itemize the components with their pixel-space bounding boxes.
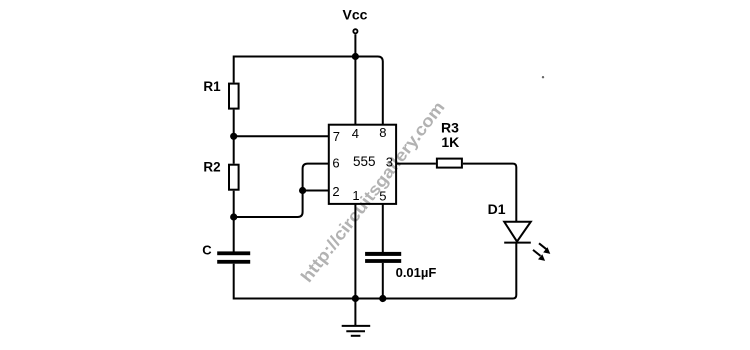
junction pin 1 / bottom rail bbox=[352, 295, 359, 302]
wire R1 bottom to R2 top bbox=[233, 110, 235, 164]
svg-text:Vcc: Vcc bbox=[343, 7, 368, 23]
LED D1 cathode bar bbox=[504, 242, 531, 244]
capacitor C2 top plate bbox=[365, 252, 401, 256]
svg-text:R2: R2 bbox=[203, 160, 220, 175]
svg-text:D1: D1 bbox=[488, 201, 506, 217]
node Vcc label bbox=[343, 7, 368, 23]
svg-text:5: 5 bbox=[379, 189, 386, 204]
555 label bbox=[353, 154, 376, 169]
value 1K bbox=[441, 134, 459, 150]
resistor R3 label bbox=[441, 119, 459, 135]
pin 2 bbox=[332, 184, 339, 199]
junction pin2/pin6 branch bbox=[299, 187, 306, 194]
resistor R1 bbox=[229, 84, 239, 109]
wire Vcc terminal down to pin 4 bbox=[354, 34, 356, 124]
capacitor C top plate bbox=[217, 251, 250, 255]
pin 7 bbox=[333, 129, 340, 144]
resistor R2 bbox=[229, 165, 239, 190]
svg-text:1: 1 bbox=[352, 188, 359, 203]
op-amp U1 555 body white fill bbox=[328, 124, 397, 205]
wire node to pin 7 bbox=[234, 135, 329, 137]
svg-text:8: 8 bbox=[379, 125, 386, 140]
wire LED cathode to bottom rail bbox=[234, 243, 517, 299]
wire pin 1 to ground bbox=[354, 204, 356, 326]
wire top rail down to R1 bbox=[233, 56, 235, 83]
Vcc terminal circle bbox=[353, 29, 357, 33]
capacitor C bottom plate bbox=[217, 260, 250, 264]
pin 5 bbox=[379, 189, 386, 204]
wire C bottom to bottom rail bbox=[233, 264, 235, 300]
watermark http://circuitsgallery.com bbox=[297, 98, 448, 286]
pin 1 bbox=[352, 188, 359, 203]
LED D1 emission arrow 2 bbox=[533, 250, 545, 261]
pin 6 bbox=[332, 156, 339, 171]
svg-text:R3: R3 bbox=[441, 119, 459, 135]
svg-text:555: 555 bbox=[353, 154, 376, 169]
pin 3 bbox=[386, 155, 393, 170]
wire R2/C node up to pin 6 bbox=[234, 164, 329, 217]
svg-text:1K: 1K bbox=[441, 134, 459, 150]
wire R2 bottom to capacitor C bbox=[233, 191, 235, 252]
value 0.01uF bbox=[396, 265, 437, 280]
speck artifact bbox=[542, 76, 544, 78]
ground bbox=[342, 326, 371, 336]
resistor R3 bbox=[437, 159, 462, 168]
svg-text:2: 2 bbox=[332, 184, 339, 199]
svg-text:3: 3 bbox=[386, 155, 393, 170]
svg-text:0.01µF: 0.01µF bbox=[396, 265, 437, 280]
pin 8 bbox=[379, 125, 386, 140]
wire C2 bottom to bottom rail bbox=[382, 263, 384, 299]
junction Vcc node bbox=[352, 53, 359, 60]
op-amp U1 555 timer IC body bbox=[329, 125, 396, 204]
svg-text:7: 7 bbox=[333, 129, 340, 144]
wire top rail from R1 branch to pin 8 bbox=[234, 57, 383, 125]
svg-text:C: C bbox=[202, 242, 212, 257]
junction R1/R2 node to pin 7 bbox=[230, 133, 237, 140]
resistor R2 label bbox=[203, 160, 220, 175]
capacitor C label bbox=[202, 242, 212, 257]
svg-text:R1: R1 bbox=[203, 79, 221, 94]
pin 4 bbox=[352, 126, 359, 141]
junction R2/C node bbox=[230, 213, 237, 220]
wire branch to pin 2 bbox=[303, 190, 329, 192]
junction C2 / bottom rail bbox=[379, 295, 386, 302]
diode D1 label bbox=[488, 201, 506, 217]
capacitor C2 bottom plate bbox=[365, 259, 401, 263]
LED D1 triangle bbox=[504, 222, 531, 242]
svg-text:6: 6 bbox=[332, 156, 339, 171]
resistor R1 label bbox=[203, 79, 221, 94]
LED D1 emission arrow 1 bbox=[539, 243, 550, 254]
wire pin 5 to capacitor bbox=[382, 204, 384, 252]
wire R3 to LED anode bbox=[463, 164, 516, 222]
svg-text:4: 4 bbox=[352, 126, 359, 141]
wire pin 3 to R3 bbox=[396, 163, 436, 165]
